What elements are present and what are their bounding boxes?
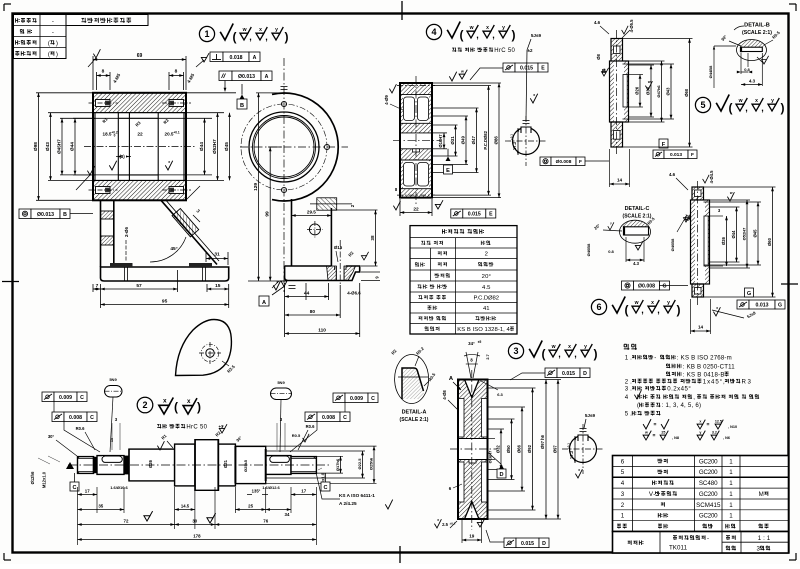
svg-text:B: B: [63, 212, 67, 218]
svg-text:): ): [677, 303, 681, 317]
svg-text:,: ,: [492, 30, 495, 40]
svg-text:G: G: [747, 291, 751, 297]
svg-text:w: w: [738, 98, 743, 104]
svg-text:x: x: [533, 93, 535, 97]
gear keyway cross section detail: [513, 128, 540, 155]
svg-text:3.2: 3.2: [712, 431, 717, 435]
svg-text:E: E: [489, 211, 493, 217]
svg-text:Ø22.5: Ø22.5: [357, 458, 362, 470]
svg-text:=: =: [707, 422, 710, 428]
svg-text:41: 41: [483, 306, 490, 312]
svg-text:1: 1: [204, 29, 209, 39]
45 deg angle dim: [150, 237, 186, 262]
base section hatch around bolt hole: [327, 266, 337, 280]
svg-text:HrC 50: HrC 50: [186, 425, 207, 431]
svg-text:0.8: 0.8: [744, 67, 750, 72]
svg-text:29.5: 29.5: [307, 210, 316, 215]
svg-text:y: y: [667, 300, 670, 306]
svg-text:,: ,: [249, 32, 252, 42]
svg-text:4.3: 4.3: [633, 261, 639, 266]
svg-text:Ø60: Ø60: [767, 237, 772, 246]
svg-text:w: w: [469, 25, 474, 31]
svg-text:3: 3: [718, 208, 721, 213]
side view base: [285, 266, 360, 281]
svg-text:95: 95: [162, 299, 168, 305]
svg-text:x: x: [699, 420, 701, 424]
svg-text:0.009: 0.009: [350, 396, 363, 402]
cover6 width dim 14: [690, 299, 692, 334]
svg-text:±5: ±5: [478, 340, 482, 344]
side view column: [291, 199, 293, 266]
GDT parallel 0.013 A: [219, 71, 232, 81]
svg-text:C: C: [343, 415, 347, 421]
svg-text:(: (: [542, 347, 546, 361]
pulley bore keyway detail: [570, 436, 597, 463]
svg-text:Ø15: Ø15: [334, 245, 343, 250]
svg-text:GC200: GC200: [699, 458, 718, 465]
svg-text:D: D: [499, 472, 503, 478]
svg-text:,: ,: [641, 305, 644, 315]
svg-text:C: C: [371, 396, 375, 402]
svg-text:5N9: 5N9: [277, 380, 285, 385]
svg-text:17.3: 17.3: [512, 141, 517, 150]
svg-text:0.013: 0.013: [670, 152, 682, 158]
svg-text:R1: R1: [160, 433, 168, 441]
svg-text:14: 14: [698, 325, 704, 330]
svg-text:1x45°,: 1x45°,: [703, 378, 725, 385]
svg-text:Ø0.008: Ø0.008: [638, 283, 655, 289]
svg-text:20°: 20°: [593, 223, 601, 231]
svg-text:(SCALE 2:1): (SCALE 2:1): [623, 214, 652, 220]
svg-text:E: E: [541, 65, 545, 71]
svg-text:(SCALE 2:1): (SCALE 2:1): [742, 30, 772, 36]
gear right dims: [432, 132, 447, 134]
cover6 right dims: [708, 215, 723, 217]
side view height dims 129 99: [256, 92, 282, 94]
svg-text:,: ,: [265, 32, 268, 42]
svg-text:4-Ø6.6: 4-Ø6.6: [347, 291, 361, 296]
GDT 0.015 E below gear: [451, 209, 463, 218]
side view right vertical dim 38: [333, 209, 378, 211]
v-belt pulley section view: [458, 380, 488, 520]
DETAIL-A view: [395, 355, 429, 404]
svg-text:178: 178: [193, 534, 201, 539]
svg-text:Ø16H7: Ø16H7: [488, 450, 493, 463]
svg-text:(: (: [625, 303, 629, 317]
svg-text:-: -: [52, 29, 54, 36]
svg-text:x: x: [716, 306, 718, 310]
cover part5 section view: [611, 39, 623, 62]
svg-text:Ø32: Ø32: [495, 445, 500, 454]
svg-text:P.C.DØ82: P.C.DØ82: [483, 130, 488, 149]
svg-text:(: (: [729, 101, 733, 115]
svg-text:0.013: 0.013: [756, 302, 769, 308]
svg-text:Ø40B8: Ø40B8: [586, 243, 591, 256]
dim 31: [206, 258, 228, 260]
svg-text:Ø40B8: Ø40B8: [670, 238, 675, 251]
svg-text:30: 30: [192, 519, 197, 524]
svg-text:4.6: 4.6: [594, 20, 601, 25]
gear pitch lines: [397, 85, 435, 87]
shaft thread right M10: [291, 457, 316, 459]
datum A marker side view: [281, 281, 287, 287]
svg-text:E: E: [446, 168, 450, 174]
gear width dim 22: [399, 199, 401, 216]
svg-text:57: 57: [136, 283, 142, 289]
svg-text:25: 25: [661, 431, 665, 435]
svg-text:Ø98: Ø98: [33, 142, 39, 151]
GDT perpendicular 0.018 A: [210, 52, 223, 62]
svg-text:x: x: [486, 25, 489, 31]
svg-text:y: y: [502, 25, 505, 31]
shaft center groove lines: [195, 440, 197, 491]
svg-text:Ø47h6: Ø47h6: [656, 85, 661, 98]
svg-text:w: w: [634, 300, 639, 306]
svg-text:0.015: 0.015: [468, 211, 481, 217]
svg-text:-: -: [707, 535, 709, 542]
notes title: [624, 344, 637, 350]
svg-text:Ø0.008: Ø0.008: [556, 159, 572, 165]
svg-text:x: x: [578, 468, 580, 472]
svg-text:): ): [512, 28, 516, 42]
svg-text:5: 5: [700, 100, 705, 110]
svg-text:+0.1: +0.1: [567, 443, 571, 449]
svg-text:5.: 5.: [625, 411, 632, 418]
svg-text:45°: 45°: [170, 246, 177, 252]
svg-text:G: G: [662, 283, 666, 289]
svg-text:Ø25h6: Ø25h6: [369, 457, 374, 470]
svg-text:(SCALE 2:1): (SCALE 2:1): [400, 417, 429, 423]
svg-text:4.3: 4.3: [749, 79, 756, 84]
svg-text:C: C: [323, 485, 327, 491]
svg-text:R0.2: R0.2: [415, 346, 425, 356]
svg-text:Ø26: Ø26: [634, 86, 639, 95]
svg-text:x: x: [163, 398, 167, 405]
svg-text:Ø52H7: Ø52H7: [741, 227, 746, 240]
svg-text:Ø45: Ø45: [224, 142, 230, 151]
housing support column: [100, 200, 102, 267]
svg-text:y: y: [771, 98, 774, 104]
svg-text:w: w: [242, 27, 247, 33]
spur gear data table: [410, 226, 517, 334]
pulley centerlines: [471, 370, 473, 530]
svg-text:y: y: [584, 344, 587, 350]
svg-text:Ø25k5: Ø25k5: [243, 459, 248, 472]
svg-text:): ): [594, 347, 598, 361]
svg-text:GC200: GC200: [699, 469, 718, 476]
svg-text:C: C: [72, 485, 76, 491]
svg-text:38: 38: [370, 235, 375, 241]
svg-text:44: 44: [304, 291, 310, 297]
svg-text:1: 1: [729, 458, 733, 465]
tag 3 roughness note: [508, 343, 523, 358]
svg-text:KS A ISO 6411-1: KS A ISO 6411-1: [339, 493, 375, 498]
svg-text:2.7: 2.7: [486, 354, 490, 359]
shaft right dim chain: [291, 455, 343, 457]
svg-text:Ø97 h6: Ø97 h6: [540, 434, 545, 449]
GDT 0.015 D bottom: [504, 538, 516, 548]
svg-text:1: 1: [621, 513, 625, 520]
pulley groove angle dims: [466, 352, 478, 378]
housing side view boss circles: [272, 93, 338, 201]
svg-text:x: x: [259, 27, 262, 33]
svg-text:99: 99: [265, 211, 271, 217]
svg-text:y: y: [610, 221, 612, 225]
svg-text:9: 9: [375, 276, 380, 279]
svg-text:1.6/Ø12.6: 1.6/Ø12.6: [262, 485, 280, 490]
M5 tapped holes in section: [96, 100, 111, 107]
tag 1 roughness note: [199, 26, 214, 41]
pulley V-grooves: [465, 379, 480, 398]
svg-text:5Js9: 5Js9: [746, 310, 757, 319]
dim 29.5: [291, 205, 293, 212]
svg-text:(: (: [460, 28, 464, 42]
svg-text:Ø31: Ø31: [223, 459, 228, 468]
GDT concentric 0.013 B: [19, 209, 31, 219]
svg-text:): ): [56, 40, 58, 47]
svg-text:R2: R2: [390, 348, 398, 356]
svg-text:DETAIL-C: DETAIL-C: [625, 206, 650, 212]
cover5 right dims: [627, 74, 643, 76]
svg-text:A: A: [449, 376, 454, 382]
svg-text:4-Ø8: 4-Ø8: [442, 390, 447, 400]
svg-text:,: ,: [476, 30, 479, 40]
svg-text:R3: R3: [742, 378, 752, 385]
svg-text:12.5: 12.5: [715, 420, 722, 424]
datum E marker: [446, 157, 451, 162]
svg-text:4-M5: 4-M5: [112, 72, 122, 84]
svg-text:R0.6: R0.6: [306, 424, 316, 429]
svg-text:DETAIL-A: DETAIL-A: [402, 410, 427, 416]
svg-text:D: D: [542, 541, 546, 547]
upper slot section patch: [317, 198, 337, 210]
housing front section view: [93, 93, 186, 113]
svg-text:6: 6: [621, 458, 625, 465]
corner trim marks: [4, 3, 11, 5]
svg-text:GC200: GC200: [699, 491, 718, 498]
svg-text:Ø45: Ø45: [752, 229, 757, 238]
svg-text:(: (: [174, 400, 178, 414]
svg-text:3: 3: [513, 346, 518, 356]
svg-text:y: y: [699, 431, 701, 435]
svg-text:w: w: [644, 431, 648, 435]
svg-text:1.: 1.: [625, 355, 632, 362]
svg-text:35: 35: [98, 504, 103, 509]
svg-text:20°: 20°: [482, 274, 491, 280]
svg-text:Ø0.013: Ø0.013: [37, 212, 54, 218]
svg-text:-: -: [654, 355, 656, 362]
svg-text:C: C: [90, 415, 94, 421]
svg-text:B: B: [602, 69, 606, 75]
shaft drawing: [78, 457, 94, 474]
svg-text:Ø26: Ø26: [148, 459, 153, 468]
svg-text:17.3: 17.3: [569, 450, 574, 459]
svg-text:Ø47: Ø47: [471, 135, 476, 144]
svg-text:TK011: TK011: [669, 545, 688, 552]
svg-text:25: 25: [248, 504, 253, 509]
svg-text:0.009: 0.009: [59, 395, 72, 401]
svg-text:Ø44: Ø44: [199, 142, 205, 151]
svg-text:3.: 3.: [625, 386, 632, 393]
svg-text:x: x: [686, 213, 688, 217]
datum C boxes: [70, 482, 79, 491]
svg-text:x: x: [437, 518, 439, 522]
shaft GDT boxes: [42, 392, 54, 402]
svg-text:5Js9: 5Js9: [531, 33, 542, 38]
svg-text:34°: 34°: [468, 341, 475, 346]
svg-text:0.018: 0.018: [230, 55, 243, 61]
svg-text:0.2x45°: 0.2x45°: [667, 386, 691, 393]
datum G and GDT 0.013 G: [745, 288, 754, 297]
svg-text:: KB B 0250-CT11: : KB B 0250-CT11: [683, 363, 735, 370]
svg-text:SCM415: SCM415: [696, 502, 721, 509]
svg-text:: 1, 3, 4, 5, 6): : 1, 3, 4, 5, 6): [662, 402, 701, 409]
svg-text:R0.6: R0.6: [76, 426, 86, 431]
title block: [613, 532, 789, 554]
svg-text:R2: R2: [347, 250, 355, 258]
front view bottom dims: [92, 284, 94, 292]
svg-text:Ø16H7: Ø16H7: [438, 134, 443, 148]
svg-text:, N10: , N10: [728, 425, 737, 429]
shaft thread left M12: [78, 457, 94, 459]
svg-text:Ø26: Ø26: [721, 236, 726, 245]
svg-text:8: 8: [395, 187, 398, 192]
datum D marker pulley: [499, 465, 504, 470]
shaft step shoulders dark: [94, 457, 97, 473]
rib rotated section: [172, 208, 199, 236]
svg-text:GC200: GC200: [699, 513, 718, 520]
cover5 F datum boxes: [659, 139, 668, 148]
svg-text:5Js9: 5Js9: [585, 413, 596, 418]
svg-text:0.008: 0.008: [69, 415, 82, 421]
housing centerline: [84, 146, 196, 148]
svg-text:Ø97: Ø97: [552, 445, 557, 454]
svg-text:y: y: [221, 424, 223, 428]
parts list table: [613, 456, 789, 532]
svg-text:4.6: 4.6: [669, 172, 676, 177]
svg-text:R0.5: R0.5: [292, 433, 301, 438]
svg-text:6: 6: [596, 302, 601, 312]
front view top dims: [92, 56, 94, 90]
svg-text:): ): [781, 101, 785, 115]
svg-text:0: 0: [114, 134, 116, 138]
svg-text:F: F: [691, 152, 694, 158]
svg-text:2: 2: [621, 502, 625, 509]
svg-text:3: 3: [195, 208, 201, 214]
column hole: [309, 224, 320, 235]
tag 6 roughness note: [591, 299, 606, 314]
svg-text:+0.1: +0.1: [173, 131, 180, 135]
svg-text:76: 76: [263, 519, 268, 524]
svg-text:): ): [197, 400, 201, 414]
svg-text:Ø50: Ø50: [506, 445, 511, 454]
svg-text:A: A: [253, 55, 257, 61]
svg-text:22: 22: [137, 132, 143, 138]
svg-text:M12x1.0: M12x1.0: [42, 471, 47, 488]
GDT 0.015 D top: [545, 368, 557, 378]
svg-text:7: 7: [96, 283, 99, 289]
svg-text:19: 19: [469, 534, 475, 539]
tag 2 roughness note: [137, 397, 153, 413]
notes body: [625, 355, 732, 362]
svg-text:x: x: [168, 160, 170, 164]
svg-text:Ø66: Ø66: [516, 444, 521, 453]
svg-text:4: 4: [431, 27, 436, 37]
svg-text:HrC 50: HrC 50: [494, 48, 515, 54]
svg-text:G: G: [778, 302, 782, 308]
svg-text:=: =: [653, 433, 656, 439]
svg-text:, N6: , N6: [723, 436, 730, 440]
side view centerlines: [283, 58, 285, 292]
svg-text:6.3: 6.3: [497, 392, 503, 397]
svg-text:14.5: 14.5: [181, 504, 190, 509]
svg-text:8: 8: [470, 358, 473, 363]
svg-text:Ø31: Ø31: [450, 136, 455, 145]
svg-text:x: x: [187, 398, 191, 405]
svg-text:72: 72: [124, 519, 129, 524]
svg-text:1: 1: [729, 469, 733, 476]
svg-text:8: 8: [102, 69, 105, 75]
svg-text:Ø60: Ø60: [684, 88, 689, 97]
svg-text:Ø43: Ø43: [45, 142, 51, 151]
svg-text:3: 3: [757, 546, 761, 553]
svg-text:2: 2: [485, 252, 488, 258]
keyway plan views above shaft: [105, 386, 123, 398]
svg-text:2: 2: [142, 400, 147, 410]
centering tick bottom: [399, 546, 401, 563]
svg-text:1: 1: [729, 502, 733, 509]
svg-text:R0.5: R0.5: [427, 372, 437, 383]
svg-text:69: 69: [137, 53, 143, 59]
svg-text:1.6/Ø10.6: 1.6/Ø10.6: [110, 485, 128, 490]
side view bottom dims: [284, 283, 286, 337]
svg-text:Ø52H7: Ø52H7: [212, 139, 217, 154]
svg-text:1 : 1: 1 : 1: [758, 535, 771, 542]
svg-text:6: 6: [449, 486, 452, 491]
svg-text:(: (: [233, 30, 237, 44]
svg-text:(: (: [637, 402, 639, 409]
svg-text:A: A: [262, 300, 266, 306]
svg-text:3: 3: [115, 417, 118, 422]
svg-text:3: 3: [621, 491, 625, 498]
svg-text:5: 5: [621, 469, 625, 476]
svg-text:2: 2: [350, 204, 355, 207]
shaft roughness marks: [157, 441, 164, 450]
svg-text:,: ,: [761, 103, 764, 113]
svg-text:w: w: [551, 344, 556, 350]
svg-text:4.5: 4.5: [482, 285, 491, 291]
centering tick right: [781, 283, 798, 285]
svg-text:KS B ISO 1328-1, 4: KS B ISO 1328-1, 4: [457, 327, 510, 333]
svg-text:M: M: [759, 491, 764, 498]
gear keyway: [413, 149, 420, 152]
centering tick top: [401, 1, 403, 20]
svg-text:,: ,: [657, 305, 660, 315]
spur gear section view: [400, 83, 432, 198]
svg-text:Ø44: Ø44: [731, 230, 736, 239]
datum B marker: [240, 95, 245, 100]
svg-text:x: x: [755, 98, 758, 104]
svg-text:,: ,: [558, 349, 561, 359]
svg-text:4-M5: 4-M5: [186, 72, 196, 84]
svg-text:Ø44B8: Ø44B8: [708, 65, 713, 78]
svg-text:-: -: [52, 18, 54, 25]
front view right dim chain: [158, 117, 212, 119]
svg-text:0.015: 0.015: [521, 541, 534, 547]
svg-text:Ø0.013: Ø0.013: [238, 74, 255, 80]
svg-text:30°: 30°: [235, 435, 243, 443]
housing base front: [101, 267, 229, 281]
